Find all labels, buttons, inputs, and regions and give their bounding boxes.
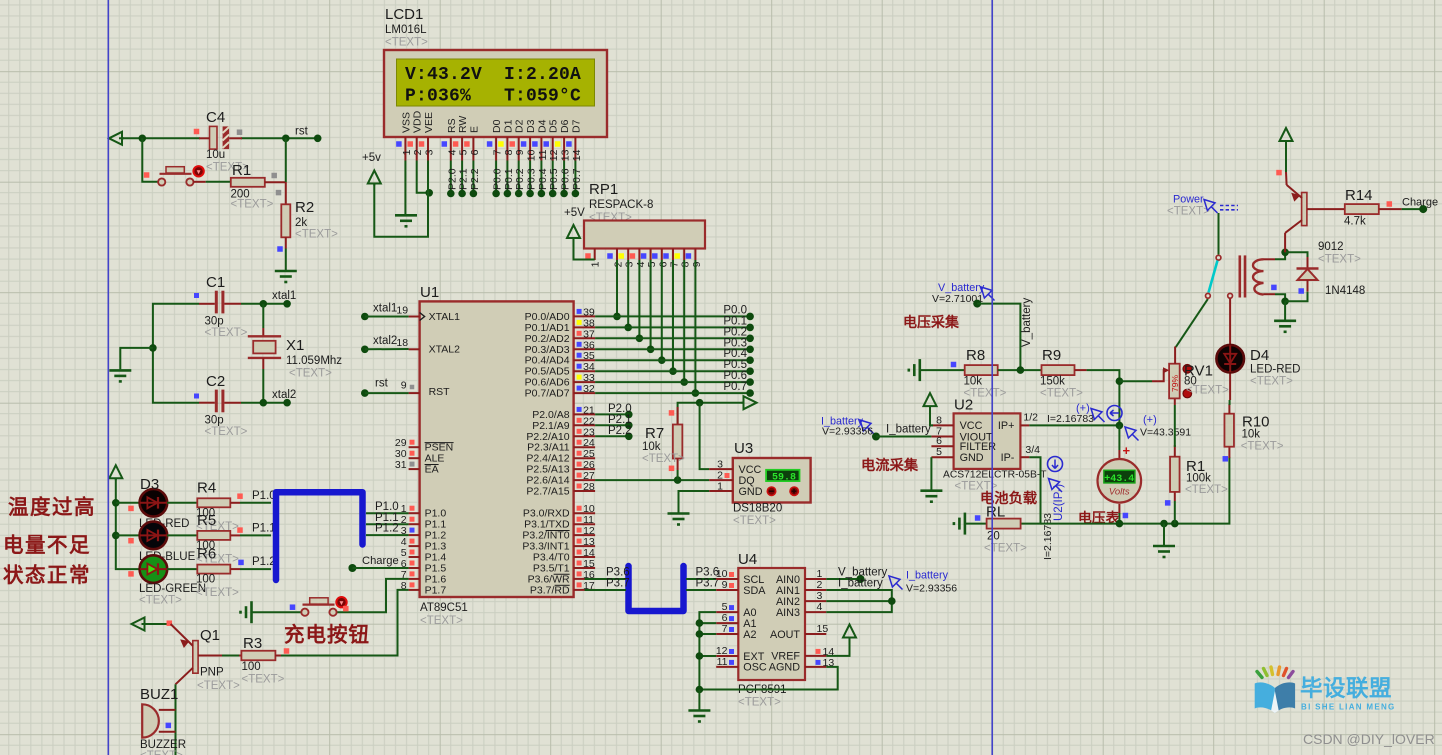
svg-text:X1: X1 bbox=[286, 337, 304, 354]
lead R7 bottom bbox=[677, 459, 679, 471]
U1 pin 28 P2.7/A15 stub bbox=[574, 490, 596, 492]
wire ground to RL bbox=[965, 523, 986, 525]
svg-text:100: 100 bbox=[196, 574, 215, 586]
svg-text:IP+: IP+ bbox=[998, 420, 1015, 432]
svg-text:RS: RS bbox=[446, 118, 458, 133]
wire U4 A1 to trunk bbox=[699, 622, 716, 624]
LCD1 body bbox=[384, 50, 607, 137]
node RP1 P0.1 bbox=[624, 324, 632, 332]
wire xtal2 to U1 bbox=[365, 348, 409, 350]
pin mark R2 bottom bbox=[277, 246, 283, 252]
RP1 pin 7 stub bbox=[672, 249, 674, 261]
wire rst to U1 bbox=[365, 392, 409, 394]
U4 body bbox=[738, 568, 805, 680]
svg-text:7: 7 bbox=[492, 149, 504, 155]
U2 pin 5 stub bbox=[931, 456, 953, 458]
svg-text:3/4: 3/4 bbox=[1025, 444, 1040, 456]
wire C2 right to xtal2 bbox=[241, 402, 287, 404]
pin mark R10 bottom bbox=[1223, 456, 1229, 462]
lead R1b bottom bbox=[1174, 492, 1176, 501]
buzzer BUZ1 bbox=[142, 704, 159, 737]
node xtal1 junction bbox=[260, 300, 268, 308]
wire P3.6 left bbox=[585, 578, 626, 580]
power +5V arrow (RP1) bbox=[567, 225, 580, 240]
U3 pin 1 stub bbox=[709, 490, 733, 492]
wire LCD pin 10 to net bbox=[529, 161, 531, 194]
U1 pin 21 P2.0/A8 stub bbox=[574, 413, 596, 415]
U1 pin 1 P1.0 stub bbox=[409, 512, 420, 514]
node P0.2 end bbox=[746, 335, 754, 343]
svg-text:(+): (+) bbox=[1143, 414, 1157, 426]
wire RP1 pin 6 to P0.4 bbox=[661, 260, 663, 360]
node Charge right bbox=[1419, 205, 1427, 213]
U1 pin 22 P2.1/A9 stub bbox=[574, 424, 596, 426]
svg-text:V_battery: V_battery bbox=[1021, 298, 1033, 347]
svg-text:<TEXT>: <TEXT> bbox=[420, 615, 463, 627]
wire row to ground bbox=[1163, 524, 1165, 545]
switch throw terminal 2 bbox=[1228, 293, 1233, 298]
RP1 pin 8 stub bbox=[683, 249, 685, 261]
U1 pin 9 mark bbox=[410, 385, 415, 390]
terminal arrow (right) bbox=[742, 396, 757, 409]
svg-text:U2: U2 bbox=[954, 397, 973, 414]
wire R8 to R9 bbox=[998, 369, 1042, 371]
wire U4 A2 to trunk bbox=[699, 633, 716, 635]
resistor R4 bbox=[197, 498, 230, 507]
U1 pin 12 mark bbox=[577, 528, 582, 533]
resistor R1 bbox=[231, 178, 265, 187]
svg-text:Power: Power bbox=[1173, 194, 1204, 206]
U2 pin IP+ stub bbox=[1020, 424, 1029, 426]
svg-text:I_battery: I_battery bbox=[886, 424, 931, 436]
U4 pin 7 mark bbox=[729, 627, 734, 632]
svg-text:P2.2: P2.2 bbox=[608, 425, 632, 437]
terminal arrow (rst net, left) bbox=[109, 132, 124, 145]
LCD1 pin 6 mark bbox=[464, 141, 470, 147]
svg-text:<TEXT>: <TEXT> bbox=[984, 543, 1027, 555]
U4 pin 13 mark bbox=[816, 660, 821, 665]
U1 pin 7 P1.6 stub bbox=[409, 578, 420, 580]
wire D4 to R10 bbox=[1229, 400, 1231, 405]
U4 pin 6 stub bbox=[716, 622, 738, 624]
wire column to meter bbox=[1118, 425, 1120, 450]
svg-text:<TEXT>: <TEXT> bbox=[1167, 206, 1210, 218]
svg-text:9: 9 bbox=[691, 261, 703, 267]
svg-text:P0.7: P0.7 bbox=[571, 168, 583, 190]
U2 pin 6 stub bbox=[931, 445, 953, 447]
svg-text:11: 11 bbox=[537, 149, 549, 160]
U4 pin 6 mark bbox=[729, 616, 734, 621]
node junction rst/R1/R2 bbox=[282, 135, 290, 143]
node IP+ junction bbox=[1116, 422, 1124, 430]
LCD1 pin 2 stub bbox=[416, 137, 418, 161]
svg-text:6: 6 bbox=[469, 149, 481, 155]
U1 pin 2 mark bbox=[410, 517, 415, 522]
svg-text:8: 8 bbox=[680, 261, 692, 267]
wire P2.2 bbox=[595, 435, 629, 437]
svg-text:<TEXT>: <TEXT> bbox=[1185, 484, 1228, 496]
svg-text:CSDN @DIY_lOVER: CSDN @DIY_lOVER bbox=[1303, 731, 1435, 747]
resistor R6 bbox=[197, 565, 230, 574]
svg-text:10u: 10u bbox=[206, 149, 225, 161]
node xtal1 U1 bbox=[361, 313, 369, 321]
svg-text:rst: rst bbox=[295, 126, 309, 138]
U1 pin 26 P2.5/A13 stub bbox=[574, 468, 596, 470]
node trunk bottom bbox=[696, 686, 704, 694]
svg-text:19: 19 bbox=[396, 305, 408, 317]
svg-text:<TEXT>: <TEXT> bbox=[295, 229, 338, 241]
thick blue link U shape bbox=[629, 566, 684, 611]
svg-text:rst: rst bbox=[375, 378, 389, 390]
U1 pin 30 mark bbox=[410, 451, 415, 456]
U3 body bbox=[733, 458, 811, 503]
capacitor C2 bbox=[215, 390, 218, 413]
svg-text:4: 4 bbox=[446, 149, 458, 155]
svg-text:2: 2 bbox=[412, 149, 424, 155]
wire +5V to RP1 pin1 bbox=[574, 238, 595, 260]
wire R4 to bus bbox=[240, 502, 271, 504]
pin mark coil bbox=[1271, 285, 1277, 291]
svg-text:D4: D4 bbox=[1250, 347, 1269, 364]
svg-text:P0.4: P0.4 bbox=[537, 168, 549, 190]
node P2.2 bbox=[625, 433, 633, 441]
pin mark C4 left bbox=[194, 129, 200, 135]
U1 pin 30 ALE stub bbox=[409, 457, 420, 459]
LCD1 pin 5 mark bbox=[453, 141, 459, 147]
LCD1 pin 7 mark bbox=[487, 141, 493, 147]
svg-text:31: 31 bbox=[395, 459, 407, 471]
lead R9 right bbox=[1075, 369, 1087, 371]
node P0.4 end bbox=[746, 356, 754, 364]
lead R5 right bbox=[230, 534, 240, 536]
svg-text:RST: RST bbox=[429, 386, 451, 398]
U1 PSEN overline bbox=[425, 442, 454, 444]
push button SW2 bbox=[310, 598, 328, 604]
wire C1 right to xtal1 bbox=[241, 303, 287, 305]
node P2.1 bbox=[625, 422, 633, 430]
svg-text:xtal1: xtal1 bbox=[272, 290, 296, 302]
wire P0.0 bus bbox=[595, 315, 750, 317]
LCD1 pin 10 mark bbox=[521, 141, 527, 147]
RV1 knob down bbox=[1183, 389, 1192, 398]
pin mark R5 bbox=[237, 527, 243, 533]
svg-text:V=43.3591: V=43.3591 bbox=[1140, 427, 1191, 439]
lead R1b top bbox=[1174, 445, 1176, 457]
RP1 pin 6 mark bbox=[652, 253, 658, 259]
U4 pin 12 stub bbox=[716, 655, 738, 657]
wire rst to R2 bbox=[285, 138, 287, 182]
wire trunk to ground bbox=[698, 690, 700, 710]
svg-text:<TEXT>: <TEXT> bbox=[197, 680, 240, 692]
wire V_battery down bbox=[977, 304, 1020, 371]
wire P3.6 right bbox=[686, 578, 716, 580]
node R7 bottom junction bbox=[674, 476, 682, 484]
svg-text:P2.7/A15: P2.7/A15 bbox=[526, 486, 569, 498]
wire bottom row bbox=[1041, 457, 1230, 524]
wire R5 to bus bbox=[240, 534, 271, 536]
svg-text:GND: GND bbox=[739, 486, 763, 498]
wire AIN0 V_battery bbox=[826, 578, 860, 580]
lead R7 top bbox=[677, 407, 679, 425]
node LED1 branch bbox=[112, 499, 120, 507]
lead R2 bottom bbox=[285, 237, 287, 248]
lead coil top bbox=[1264, 258, 1276, 260]
sheet border line left bbox=[107, 0, 109, 755]
svg-text:15: 15 bbox=[817, 623, 829, 635]
svg-text:P2.2: P2.2 bbox=[469, 168, 481, 190]
wire P2.6/A14 to DQ bbox=[595, 479, 709, 481]
pin mark RL left bbox=[975, 515, 981, 521]
U2 pin IP- stub bbox=[1020, 456, 1029, 458]
U2 body bbox=[954, 413, 1021, 469]
U4 pin 14 stub bbox=[805, 655, 826, 657]
wire LCD pin 4 to net bbox=[450, 161, 452, 194]
pin mark D3 bbox=[128, 506, 134, 512]
svg-text:P1.7: P1.7 bbox=[425, 584, 447, 596]
U1 pin 33 P0.6/AD6 stub bbox=[574, 381, 596, 383]
RP1 pin 9 stub bbox=[694, 249, 696, 261]
svg-text:xtal1: xtal1 bbox=[373, 303, 397, 315]
svg-text:P0.7: P0.7 bbox=[723, 381, 747, 393]
ground left of crystal bbox=[109, 370, 131, 381]
svg-text:温度过高: 温度过高 bbox=[8, 495, 96, 519]
LCD1 pin 13 mark bbox=[555, 141, 561, 147]
svg-text:13: 13 bbox=[560, 149, 572, 161]
wire IP- to RL bbox=[1021, 457, 1041, 523]
U1 pin 1 mark bbox=[410, 506, 415, 511]
node xtal2 U1 bbox=[361, 346, 369, 354]
pin mark R1b bottom bbox=[1165, 500, 1171, 506]
svg-text:U2(IP-): U2(IP-) bbox=[1053, 484, 1065, 521]
wire P1.1 to U1 bbox=[366, 523, 409, 525]
RP1 pin 3 mark bbox=[618, 253, 624, 259]
U4 pin 2 stub bbox=[805, 589, 826, 591]
U1 pin 31 mark bbox=[410, 462, 415, 467]
U3 display bbox=[766, 470, 799, 481]
node EXT trunk bbox=[696, 652, 704, 660]
U3 pin 2 stub bbox=[709, 479, 733, 481]
node coil top junction bbox=[1281, 249, 1289, 257]
RP1 body bbox=[584, 221, 705, 249]
svg-text:100k: 100k bbox=[1186, 473, 1211, 485]
wire R2 to ground bbox=[285, 249, 287, 271]
svg-text:R5: R5 bbox=[197, 512, 216, 529]
wire D4 top bbox=[1229, 299, 1231, 346]
wire R7 top to arrow terminal bbox=[678, 403, 745, 425]
LCD1 pin 11 stub bbox=[540, 137, 542, 161]
svg-text:R7: R7 bbox=[645, 425, 664, 442]
svg-text:SDA: SDA bbox=[743, 585, 766, 597]
svg-text:1: 1 bbox=[401, 149, 413, 155]
node LCD P0.5 bbox=[549, 190, 557, 198]
node xtal2 junction bbox=[260, 399, 268, 407]
svg-text:10k: 10k bbox=[1242, 429, 1261, 441]
svg-text:xtal2: xtal2 bbox=[272, 389, 296, 401]
wire LCD pin 7 to net bbox=[495, 161, 497, 194]
svg-text:<TEXT>: <TEXT> bbox=[733, 515, 776, 527]
wire LCD pin 12 to net bbox=[552, 161, 554, 194]
wire P0.3 bus bbox=[595, 348, 750, 350]
LCD1 pin 4 mark bbox=[442, 141, 448, 147]
wire P0.1 bus bbox=[595, 326, 750, 328]
lead diode top bbox=[1307, 257, 1309, 269]
node P0.1 end bbox=[746, 324, 754, 332]
LED D4 (red) bbox=[1216, 345, 1244, 373]
relay coil arcs bbox=[1253, 259, 1264, 294]
svg-text:79%: 79% bbox=[1170, 375, 1180, 392]
svg-text:4.7k: 4.7k bbox=[1344, 216, 1366, 228]
wire U4 EXT to trunk bbox=[699, 655, 716, 657]
wire P0.4 bus bbox=[595, 359, 750, 361]
wire P0.5 bus bbox=[595, 370, 750, 372]
node LED2 branch bbox=[112, 532, 120, 540]
svg-text:GND: GND bbox=[960, 452, 984, 464]
node xtal1 endpoint bbox=[283, 300, 291, 308]
wire LCD pin 14 to net bbox=[574, 161, 576, 194]
pin mark R6 bbox=[238, 560, 244, 566]
U4 pin 5 stub bbox=[716, 611, 738, 613]
svg-text:<TEXT>: <TEXT> bbox=[1318, 254, 1361, 266]
wire P0.7 bus bbox=[595, 392, 750, 394]
svg-text:P2.1: P2.1 bbox=[458, 168, 470, 190]
svg-text:毕设联盟: 毕设联盟 bbox=[1300, 676, 1392, 701]
RP1 pin 2 stub bbox=[616, 249, 618, 261]
U1 pin 12 overline bbox=[546, 530, 570, 532]
node LCD P2.1 bbox=[458, 190, 466, 198]
power +5v arrow (LCD) bbox=[368, 171, 381, 186]
probe arrow V43 bbox=[1125, 427, 1139, 441]
resistor R3 bbox=[241, 651, 275, 661]
svg-text:IP-: IP- bbox=[1001, 452, 1015, 464]
svg-text:1: 1 bbox=[717, 481, 723, 493]
wire LED2 to R5 bbox=[167, 534, 198, 536]
svg-text:D4: D4 bbox=[536, 119, 548, 133]
RP1 pin 7 mark bbox=[663, 253, 669, 259]
node A2 trunk bbox=[696, 630, 704, 638]
U3 pin 3 stub bbox=[709, 468, 733, 470]
svg-text:RESPACK-8: RESPACK-8 bbox=[589, 199, 653, 211]
node ground row bbox=[1160, 520, 1168, 528]
wire LED2 branch bbox=[116, 534, 140, 536]
lead R6 right bbox=[230, 568, 240, 570]
pin mark D5 bbox=[128, 538, 134, 544]
svg-text:U4: U4 bbox=[738, 551, 757, 568]
svg-text:11: 11 bbox=[717, 656, 728, 668]
wire rst horizontal left bbox=[119, 137, 200, 139]
node LCD P2.0 bbox=[447, 190, 455, 198]
U1 pin 6 mark bbox=[410, 561, 415, 566]
svg-text:AT89C51: AT89C51 bbox=[420, 602, 468, 614]
wire LCD pin 6 to net bbox=[472, 161, 474, 194]
svg-text:A2: A2 bbox=[743, 629, 756, 641]
probe I_battery U2 arrow bbox=[860, 420, 874, 434]
LCD1 pin 1 mark bbox=[396, 141, 402, 147]
probe Power arrow bbox=[1204, 200, 1218, 214]
U1 pin 35 P0.4/AD4 stub bbox=[574, 359, 596, 361]
svg-text:AIN3: AIN3 bbox=[776, 607, 800, 619]
svg-text:P1.2: P1.2 bbox=[252, 556, 276, 568]
lead RV1 bottom bbox=[1174, 398, 1176, 405]
capacitor C4 bbox=[210, 126, 218, 149]
svg-text:9: 9 bbox=[401, 380, 407, 392]
U1 pin 32 mark bbox=[577, 386, 582, 391]
svg-text:电压采集: 电压采集 bbox=[903, 314, 960, 330]
U1 pin 18 XTAL2 stub bbox=[409, 348, 420, 350]
node A1 trunk bbox=[696, 619, 704, 627]
node LCD P0.1 bbox=[504, 190, 512, 198]
lead meter top bbox=[1118, 450, 1120, 460]
node junction on rst wire bbox=[139, 135, 147, 143]
wire P1.0 to U1 bbox=[366, 512, 409, 514]
svg-text:<TEXT>: <TEXT> bbox=[205, 327, 248, 339]
switch throw terminal 1 bbox=[1206, 293, 1211, 298]
wire C1 left to trunk bbox=[153, 304, 199, 403]
resistor RL bbox=[987, 519, 1021, 529]
svg-text:R6: R6 bbox=[197, 546, 216, 563]
svg-text:1/2: 1/2 bbox=[1023, 412, 1038, 424]
svg-text:D3: D3 bbox=[140, 476, 159, 493]
svg-text:EA: EA bbox=[425, 464, 439, 476]
power DC dashes bbox=[1220, 205, 1238, 207]
U1 pin 25 mark bbox=[577, 451, 582, 456]
svg-text:xtal2: xtal2 bbox=[373, 335, 397, 347]
wire RP1 pin 3 to P0.1 bbox=[627, 260, 629, 327]
probe circle IP- down bbox=[1048, 457, 1063, 472]
LCD1 pin 5 stub bbox=[461, 137, 463, 161]
U4 pin 10 stub bbox=[716, 578, 738, 580]
svg-text:P:036% T:059°C: P:036% T:059°C bbox=[405, 87, 581, 107]
wire U4 A0 trunk bbox=[699, 612, 837, 689]
LCD1 screen bbox=[397, 59, 595, 106]
pin mark R7 bottom bbox=[669, 466, 675, 472]
wire coil top bbox=[1275, 252, 1285, 259]
U1 pin 23 P2.2/A10 stub bbox=[574, 435, 596, 437]
svg-text:Volts: Volts bbox=[1109, 487, 1130, 498]
svg-text:1N4148: 1N4148 bbox=[1325, 285, 1365, 297]
svg-text:D7: D7 bbox=[570, 119, 582, 133]
svg-text:D6: D6 bbox=[559, 119, 571, 133]
svg-text:I_battery: I_battery bbox=[906, 570, 949, 582]
wire P0.2 bus bbox=[595, 337, 750, 339]
node LCD P0.0 bbox=[492, 190, 500, 198]
wire R6 to bus bbox=[240, 568, 271, 570]
U1 pin 10 stub bbox=[574, 512, 596, 514]
svg-text:28: 28 bbox=[583, 481, 595, 493]
lead X1 top bbox=[262, 328, 264, 336]
svg-text:P0.5: P0.5 bbox=[548, 168, 560, 190]
U1 pin 38 mark bbox=[577, 320, 582, 325]
svg-text:5: 5 bbox=[458, 149, 470, 155]
U1 pin 16 mark bbox=[577, 571, 582, 576]
U1 pin 19 clock mark bbox=[420, 313, 425, 321]
svg-text:VEE: VEE bbox=[423, 112, 435, 133]
U4 pin 4 stub bbox=[805, 611, 826, 613]
svg-text:1: 1 bbox=[590, 261, 602, 267]
LCD1 pin 12 stub bbox=[552, 137, 554, 161]
LED D3 (red) bbox=[140, 489, 168, 517]
U1 pin 4 P1.3 stub bbox=[409, 545, 420, 547]
U1 pin 37 mark bbox=[577, 331, 582, 336]
wire LCD pin 5 to net bbox=[461, 161, 463, 194]
svg-text:4: 4 bbox=[817, 601, 823, 613]
pin mark R14 right bbox=[1387, 201, 1393, 207]
node meter row bbox=[1116, 520, 1124, 528]
U1 pin 3 mark bbox=[410, 528, 415, 533]
svg-text:VDD: VDD bbox=[412, 110, 424, 133]
ground rotated (RL) bbox=[954, 513, 965, 535]
U1 pin 15 stub bbox=[574, 567, 596, 569]
diode D 1N4148 bbox=[1297, 267, 1319, 269]
